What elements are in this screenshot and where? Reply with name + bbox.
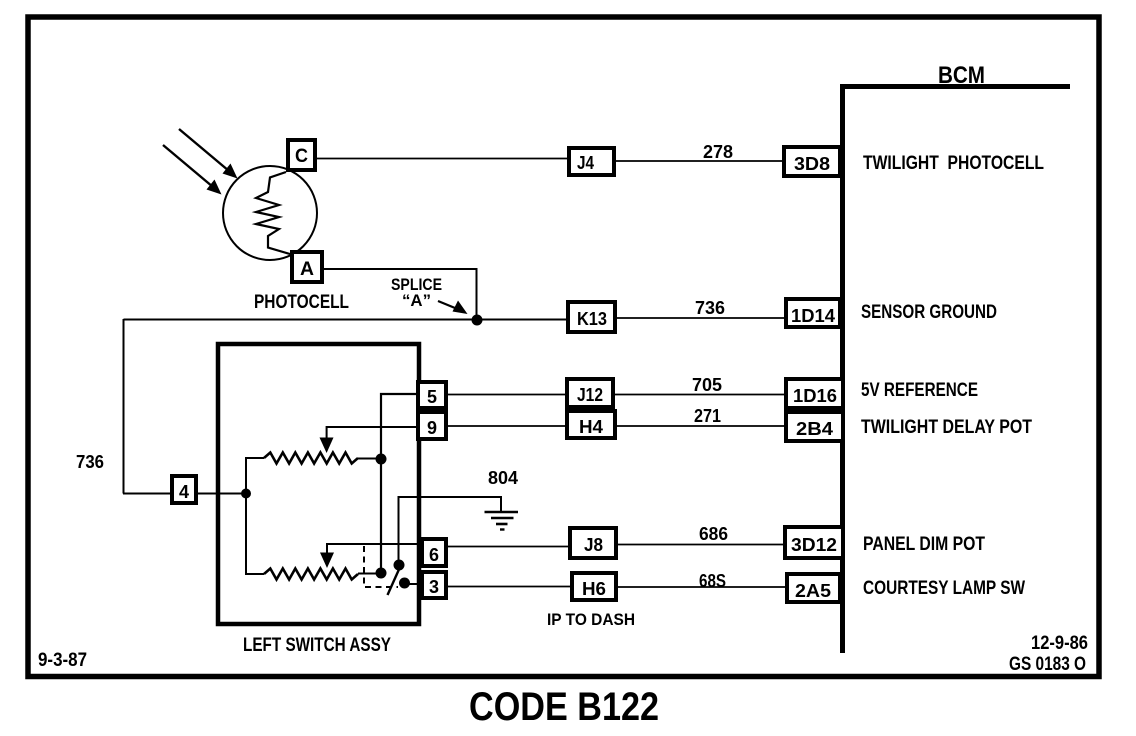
svg-text:2B4: 2B4 [796,419,833,439]
svg-text:TWILIGHT PHOTOCELL: TWILIGHT PHOTOCELL [863,153,1044,174]
svg-text:4: 4 [179,482,189,502]
connector 4 [172,476,196,503]
pin 6 [422,539,446,566]
svg-text:J8: J8 [584,535,603,555]
svg-text:6: 6 [429,545,439,565]
svg-text:BCM: BCM [938,62,985,89]
upper potentiometer (twilight delay) [264,453,358,464]
switch blade [388,566,401,595]
svg-text:271: 271 [694,406,721,426]
pin 5 [418,382,446,408]
svg-text:LEFT SWITCH ASSY: LEFT SWITCH ASSY [243,635,391,656]
wire lower pot to 5V node [358,573,381,575]
svg-text:GS 0183 O: GS 0183 O [1009,654,1086,675]
wire connector 4 to junction [196,493,246,495]
wire J12 to 1D16 [613,394,786,396]
wire splice row to K13 [124,319,569,321]
svg-text:SENSOR GROUND: SENSOR GROUND [861,302,997,323]
5V reference vertical wire (pin 5) [381,394,418,573]
wire pin 5 to J12 [446,394,567,396]
connector J4 [569,148,614,175]
wire K13 to 1D14 [615,317,786,319]
photocell resistor element [256,172,290,254]
svg-text:5V REFERENCE: 5V REFERENCE [861,380,978,401]
svg-text:COURTESY LAMP SW: COURTESY LAMP SW [863,578,1025,599]
svg-text:9-3-87: 9-3-87 [38,650,87,671]
upper wiper arrowhead [320,438,334,454]
pin 9 [418,412,446,439]
svg-text:C: C [295,146,308,167]
svg-text:5: 5 [427,387,437,407]
svg-text:736: 736 [695,298,725,318]
svg-text:PANEL DIM POT: PANEL DIM POT [863,534,985,555]
connector 1D14 [786,299,840,327]
svg-text:1D14: 1D14 [791,306,835,326]
wire pin 6 to J8 [446,546,570,548]
wire J8 to 3D12 [616,544,785,546]
lower wiper wire to pin 6 [327,544,422,556]
light ray arrow 1 [179,129,238,179]
ground wire from switch pole [399,497,502,561]
svg-text:3D12: 3D12 [791,535,837,555]
svg-text:“A”: “A” [402,292,431,310]
svg-text:3: 3 [429,577,439,597]
connector 2A5 [787,574,840,602]
photocell terminal A [292,252,322,282]
svg-text:K13: K13 [577,309,607,329]
svg-text:A: A [300,259,314,280]
svg-text:IP TO DASH: IP TO DASH [547,610,635,629]
wire J4 to 3D8 [614,160,784,162]
wire junction up to upper pot [246,458,264,494]
lower potentiometer (panel dim) [264,569,358,580]
svg-text:804: 804 [488,468,518,488]
svg-text:12-9-86: 12-9-86 [1031,633,1088,654]
wire H6 to 2A5 [616,586,787,588]
BCM module outline [843,87,1071,654]
light ray arrow 2 [163,145,222,195]
upper pot right junction dot [376,454,387,465]
wire upper pot to 5V node [358,458,381,460]
svg-text:686: 686 [699,524,728,544]
splice junction dot [472,315,483,326]
svg-text:CODE B122: CODE B122 [469,685,659,729]
ground symbol 804 [485,512,519,530]
connector H6 [572,573,616,600]
switch pole dot [394,560,405,571]
svg-text:PHOTOCELL: PHOTOCELL [254,292,349,313]
splice pointer arrow [438,301,468,315]
svg-text:736: 736 [76,452,104,472]
wire H4 to 2B4 [615,425,786,427]
svg-text:2A5: 2A5 [795,581,831,601]
svg-text:3D8: 3D8 [794,154,830,174]
wire pin 9 to H4 [446,425,567,427]
wire C to J4 [315,158,569,160]
svg-text:68S: 68S [699,571,726,591]
svg-text:9: 9 [427,418,437,438]
wire switch contact to pin 3 [404,583,422,585]
svg-text:H4: H4 [579,417,603,437]
lower wiper arrowhead [320,553,334,569]
lower pot right junction dot [376,568,387,579]
connector J12 [567,379,613,407]
detent switch dashed link [364,546,398,587]
photocell body (circle) [223,166,317,260]
svg-text:TWILIGHT DELAY POT: TWILIGHT DELAY POT [861,417,1032,438]
svg-text:1D16: 1D16 [793,386,837,406]
connector H4 [567,411,615,438]
upper wiper wire to pin 9 [327,427,418,440]
LEFT SWITCH ASSY box [218,344,419,624]
connector 2B4 [786,412,843,441]
connector J8 [570,528,616,558]
svg-text:J12: J12 [577,385,603,405]
connector 3D12 [785,527,843,558]
wire into connector 4 [123,493,172,495]
connector 3D8 [784,147,840,176]
wire left drop from splice row [123,319,125,494]
svg-text:278: 278 [703,142,733,162]
svg-text:H6: H6 [582,579,606,599]
wire A to splice corner [322,269,477,320]
SPLICE "A" label [391,276,442,310]
pin 3 [422,572,446,598]
svg-text:J4: J4 [577,153,594,173]
wire pin 3 to H6 [446,586,572,588]
photocell terminal C [288,140,315,170]
switch contact dot [399,578,410,589]
pot feed junction dot [241,489,251,499]
connector K13 [568,302,615,332]
wire junction down to lower pot [246,493,264,574]
connector 1D16 [786,379,843,408]
svg-text:705: 705 [692,375,722,395]
